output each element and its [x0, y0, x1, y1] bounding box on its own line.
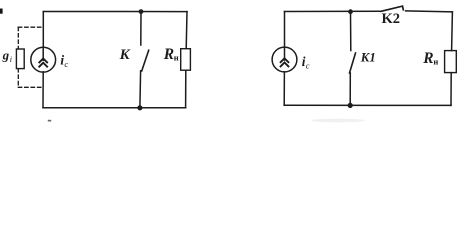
wire: right circuit top conductor left of K2	[285, 10, 382, 12]
label K2	[382, 11, 401, 27]
current source (left circuit)	[31, 47, 56, 72]
wire: left branch lower segment (source bottom lead)	[42, 72, 44, 108]
switch K2 blade	[381, 6, 403, 11]
wire: right circuit bottom conductor	[284, 104, 451, 106]
junction: bottom node of K1 branch	[348, 103, 353, 108]
svg-text:c: c	[64, 59, 68, 69]
dashed box: real source boundary	[18, 27, 43, 87]
wire: switch K branch lower segment	[139, 71, 142, 108]
junction: bottom node of switch branch (left circuit)	[137, 105, 142, 110]
wire: left circuit bottom conductor	[43, 107, 186, 109]
wire: left circuit load branch upper segment	[185, 12, 188, 49]
label g_i	[2, 47, 12, 64]
svg-text:g: g	[2, 47, 10, 62]
label i_g (left source current)	[60, 53, 68, 69]
current source (right circuit)	[272, 47, 297, 72]
switch K1 blade	[350, 53, 356, 73]
label R_n (left)	[163, 46, 179, 63]
resistor g_i (internal conductance)	[16, 49, 24, 69]
resistor R_n (left load)	[181, 49, 191, 70]
wire: right circuit load branch upper segment	[451, 12, 454, 51]
svg-text:R: R	[163, 46, 174, 63]
svg-text:K1: K1	[360, 51, 376, 65]
wire: switch K branch upper segment	[140, 12, 142, 45]
wire: left branch upper segment (source top lead)	[42, 12, 44, 48]
wire: left circuit load branch lower segment	[185, 70, 187, 108]
label K	[119, 47, 131, 63]
wire: left circuit top conductor	[43, 11, 187, 13]
svg-text:K2: K2	[382, 11, 401, 27]
switch K blade	[142, 50, 149, 71]
wire: right circuit top conductor right of K2	[406, 10, 453, 13]
label i_g (right source current)	[302, 54, 310, 71]
svg-text:н: н	[174, 52, 179, 62]
resistor R_n (right load)	[445, 51, 457, 73]
label K1	[360, 51, 376, 65]
svg-text:c: c	[306, 60, 310, 70]
junction: top node of K1 branch	[348, 9, 353, 14]
wire: right source branch lower segment	[283, 72, 285, 105]
svg-text:н: н	[433, 56, 438, 66]
svg-text:K: K	[119, 47, 131, 63]
wire: switch K1 branch lower segment	[349, 73, 351, 105]
wire: right source branch upper segment	[284, 12, 286, 48]
wire: switch K1 branch upper segment	[350, 12, 352, 51]
svg-text:R: R	[422, 50, 433, 67]
wire: right circuit load branch lower segment	[450, 73, 452, 106]
label R_n (right)	[422, 50, 438, 67]
junction: top node of switch branch (left circuit)	[139, 9, 144, 14]
svg-text:i: i	[10, 55, 12, 64]
